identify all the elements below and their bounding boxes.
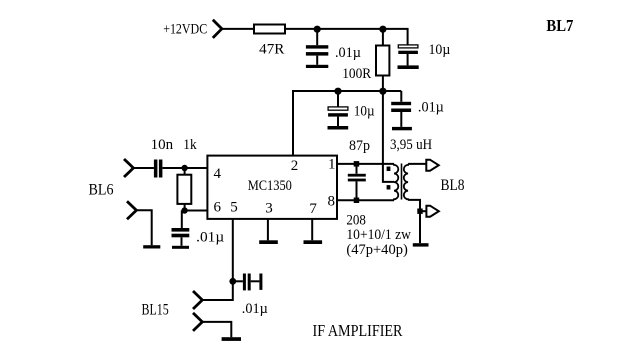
svg-text:+12VDC: +12VDC xyxy=(163,22,207,38)
svg-text:BL8: BL8 xyxy=(441,177,465,194)
svg-text:5: 5 xyxy=(230,200,238,216)
connector J7 BL15 second chevron xyxy=(193,313,202,331)
connector J4 BL8 output arrow xyxy=(426,160,438,171)
ground G9 xyxy=(304,240,323,244)
wire secondary bottom xyxy=(408,200,420,243)
wire to pin 6 xyxy=(185,210,208,212)
ground G5 xyxy=(172,246,189,249)
ground G6 xyxy=(143,245,160,248)
svg-text:IF AMPLIFIER: IF AMPLIFIER xyxy=(313,321,404,340)
ground G8 xyxy=(259,240,278,244)
ground G7 xyxy=(413,243,429,246)
wire to J5 xyxy=(420,210,427,212)
transformer T1 core xyxy=(401,164,403,200)
capacitor C1 .01u xyxy=(306,29,328,65)
phasing dot primary lower xyxy=(387,185,391,189)
svg-text:MC1350: MC1350 xyxy=(248,178,292,194)
connector J2 BL6 input chevron xyxy=(124,159,133,177)
connector J6 BL15 chevron xyxy=(193,291,202,309)
wire rail2 (decoupled V+ rail to pin 2) xyxy=(293,91,401,156)
svg-text:(47p+40p): (47p+40p) xyxy=(346,242,407,258)
svg-text:47R: 47R xyxy=(259,41,284,57)
connector J1 +12VDC input chevron xyxy=(213,20,222,38)
capacitor C3 10u electrolytic xyxy=(328,91,348,126)
node junction dot G xyxy=(229,278,236,285)
ground G2 xyxy=(398,65,419,69)
node junction dot D xyxy=(379,88,386,95)
svg-text:BL6: BL6 xyxy=(89,181,114,198)
node junction dot C xyxy=(334,88,341,95)
wire from rail to R2 xyxy=(382,29,384,46)
node junction dot F xyxy=(181,207,187,213)
svg-text:100R: 100R xyxy=(342,66,371,82)
svg-text:3: 3 xyxy=(265,200,273,216)
wire J3 to ground xyxy=(136,210,151,245)
svg-text:.01µ: .01µ xyxy=(335,45,361,61)
node junction dot A xyxy=(314,26,321,33)
svg-text:4: 4 xyxy=(214,166,222,182)
wire pin 3 to ground xyxy=(267,219,269,240)
capacitor C5 10n xyxy=(154,160,163,178)
svg-text:.01µ: .01µ xyxy=(196,229,224,245)
node junction dot B xyxy=(379,26,386,33)
svg-text:10+10/1 zw: 10+10/1 zw xyxy=(346,227,411,243)
wire pin 7 to ground xyxy=(311,219,313,240)
phasing dot primary upper xyxy=(387,167,391,172)
connector J3 BL6 second chevron xyxy=(127,201,136,219)
resistor R3 1k xyxy=(177,168,191,211)
capacitor C2 10u electrolytic xyxy=(398,45,418,66)
svg-text:10µ: 10µ xyxy=(354,104,375,120)
wire V+ to transformer center tap xyxy=(383,91,394,182)
transformer T1 primary winding xyxy=(394,164,398,200)
ground G10 xyxy=(222,337,241,341)
ground G3 xyxy=(328,126,349,130)
node square dot pin1/87p xyxy=(354,161,360,167)
capacitor C8 .01u agc xyxy=(233,274,263,291)
svg-text:.01µ: .01µ xyxy=(418,100,444,116)
wire secondary top to J4 xyxy=(408,163,426,165)
capacitor C4 .01u xyxy=(391,91,411,127)
capacitor C6 .01u xyxy=(172,211,190,246)
wire +12V rail left xyxy=(222,28,254,30)
capacitor C7 87p xyxy=(348,164,366,200)
wire pin 8 to transformer xyxy=(337,199,394,201)
wire J7 to ground xyxy=(202,322,231,337)
svg-text:2: 2 xyxy=(291,158,299,174)
node junction dot E xyxy=(181,165,187,171)
svg-text:3,95 uH: 3,95 uH xyxy=(390,137,432,153)
ground G4 xyxy=(392,127,412,130)
svg-text:10µ: 10µ xyxy=(429,42,451,58)
wire +12V rail right xyxy=(285,29,408,45)
svg-text:1: 1 xyxy=(328,157,336,173)
svg-text:BL15: BL15 xyxy=(142,302,169,319)
svg-text:7: 7 xyxy=(309,201,317,217)
connector J5 BL8 output arrow xyxy=(426,206,438,217)
wire J2 to C5 xyxy=(133,167,154,169)
svg-text:8: 8 xyxy=(328,193,336,209)
svg-text:6: 6 xyxy=(214,200,222,216)
resistor R2 100R xyxy=(376,46,389,76)
wire C5 to pin4 xyxy=(162,167,207,169)
svg-text:87p: 87p xyxy=(349,138,370,154)
node square dot secondary xyxy=(417,209,422,214)
svg-text:10n: 10n xyxy=(151,137,174,153)
resistor R1 47R xyxy=(254,25,285,34)
node square dot pin8/87p xyxy=(354,198,360,204)
wire R2 bottom to rail2 xyxy=(382,76,384,92)
wire pin 1 to transformer xyxy=(337,163,394,165)
transformer T1 secondary winding xyxy=(404,164,408,200)
wire pin 5 down and left to J6 xyxy=(202,219,233,300)
svg-text:BL7: BL7 xyxy=(546,16,573,35)
svg-text:.01µ: .01µ xyxy=(242,301,268,317)
ground G1 xyxy=(306,65,328,68)
svg-text:1k: 1k xyxy=(183,137,197,153)
op-amp U1 MC1350 IC body xyxy=(207,156,337,219)
